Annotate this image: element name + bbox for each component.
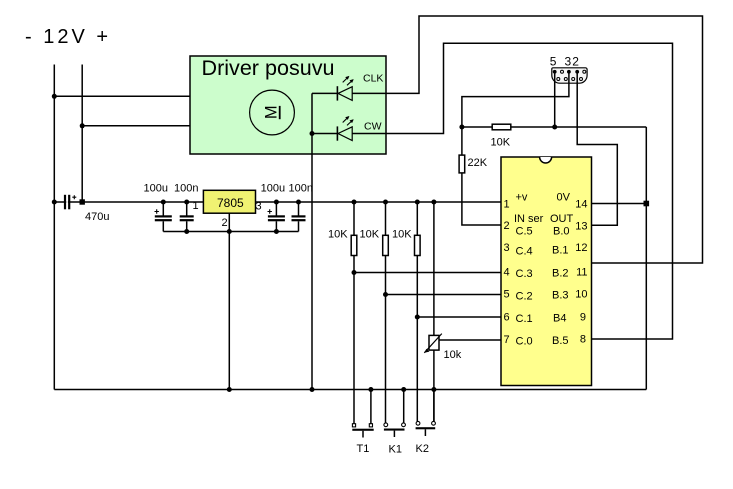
svg-text:B.3: B.3 [552,290,569,302]
junction [227,229,232,234]
resistor R5 22K vertical [459,127,501,225]
svg-text:1: 1 [504,199,510,211]
svg-text:12: 12 [575,242,587,254]
svg-text:10: 10 [575,289,587,301]
pin 12 label [575,242,587,254]
wire: capacitor ground bus [163,231,298,233]
junction [459,125,464,130]
label 0V [557,192,571,204]
svg-text:B.0: B.0 [553,226,570,238]
pin 4 label [504,267,510,279]
svg-text:3: 3 [504,242,510,254]
svg-text:100u: 100u [261,183,285,195]
svg-text:C.0: C.0 [516,336,533,348]
svg-text:470u: 470u [85,211,109,223]
IC U1 [501,157,592,386]
wire: R3 to IC pin6 [417,316,501,318]
svg-text:9: 9 [580,312,586,324]
label C.1 [516,313,533,325]
svg-text:B.1: B.1 [552,245,569,257]
value 100u [261,183,285,195]
junction on rail (100n left) [184,200,189,205]
svg-text:2: 2 [572,55,579,69]
svg-text:C.1: C.1 [516,313,533,325]
junction [552,125,557,130]
wire: right +12V rail vertical [81,65,83,203]
value 470u [85,211,109,223]
svg-text:10k: 10k [444,349,462,361]
wire: +12V feed to driver box [82,125,190,127]
wire: -12V feed to driver box [54,95,190,97]
junction on rail (R1 top) [352,200,357,205]
pin 14 label [575,199,587,211]
label CW [364,121,382,133]
svg-text:2: 2 [222,217,228,229]
resistor R4 10K horizontal [462,124,646,130]
value 100u [144,183,168,195]
svg-text:100n: 100n [289,183,313,195]
svg-text:100n: 100n [174,183,198,195]
svg-text:14: 14 [575,199,587,211]
svg-text:7: 7 [504,334,510,346]
wire: CLK net to IC pin11 [352,16,702,263]
svg-text:10K: 10K [328,229,348,241]
pin 2 label [504,220,510,232]
junction [184,229,189,234]
svg-text:IN ser: IN ser [514,213,544,225]
svg-text:5: 5 [550,55,557,69]
wire: LED common cathode vertical [311,93,313,389]
junction on rail (R2 top) [383,200,388,205]
wire: pot wiper to IC pin7 [439,339,501,341]
svg-text:C.2: C.2 [516,291,533,303]
pin 11 label [576,267,587,279]
wire: 7805 pin2 to ground rail [228,213,230,389]
svg-text:C.5: C.5 [516,226,533,238]
svg-text:- 12V +: - 12V + [25,26,111,48]
switch T1 [352,390,373,438]
pin 1 label [193,200,199,212]
svg-text:2: 2 [504,220,510,232]
switch K1 [384,390,406,438]
pin 10 label [575,289,587,301]
pin 3 label [256,201,262,213]
label B.2 [552,268,569,280]
LED CW [312,116,354,141]
label B4 [553,313,566,325]
label C.2 [516,291,533,303]
pin 3 label [504,242,510,254]
svg-text:M: M [263,105,281,119]
svg-text:OUT: OUT [550,213,574,225]
wire: bottom ground rail [54,389,646,391]
junction [80,123,85,128]
label B.0 [553,226,570,238]
svg-text:3: 3 [256,201,262,213]
junction [368,387,373,392]
wire: R1 to IC pin4 [354,272,501,274]
label OUT [550,213,574,225]
junction on rail (100n right) [296,200,301,205]
svg-text:K2: K2 [416,443,429,455]
node -12V label [25,26,111,48]
value 100n [289,183,313,195]
svg-text:C.3: C.3 [516,268,533,280]
driver box [190,56,386,154]
label CLK [363,73,383,85]
junction [52,200,57,205]
resistor R2 10K vertical [383,202,389,423]
pin 2 label [572,55,579,69]
motor M1 [250,90,295,135]
svg-text:10K: 10K [392,229,412,241]
value 10k [444,349,462,361]
svg-text:5: 5 [504,289,510,301]
label C.0 [516,336,533,348]
wire: CW net to IC pin8 [352,43,672,339]
capacitor C470u [64,195,76,210]
junction [274,229,279,234]
svg-text:Driver posuvu: Driver posuvu [202,57,335,80]
svg-text:B4: B4 [553,313,566,325]
svg-text:4: 4 [504,267,510,279]
value 22K [468,157,488,169]
pin 9 label [580,312,586,324]
regulator U 7805 [203,190,255,213]
svg-text:B.5: B.5 [552,335,569,347]
svg-text:K1: K1 [389,444,402,456]
pin 3 label [565,55,572,69]
value 10K [392,229,412,241]
pin 13 label [575,221,587,233]
label C.5 [516,226,533,238]
pin 2 label [222,217,228,229]
resistor R1 10K vertical [351,202,357,424]
svg-text:10K: 10K [491,137,511,149]
wire: right return vertical to ground [645,127,647,390]
label C.4 [516,246,533,258]
junction [431,387,436,392]
label K2 [416,443,429,455]
junction [415,315,420,320]
label K1 [389,444,402,456]
wire: main +12V/+5V horizontal rail [54,201,501,203]
junction [227,387,232,392]
capacitor 100u right [268,202,285,232]
capacitor 100n left [180,202,194,232]
pin 8 label [580,334,586,346]
svg-text:C.4: C.4 [516,246,533,258]
junction on rail (pot top) [431,200,436,205]
svg-text:11: 11 [576,267,587,279]
pin 1 label [504,199,510,211]
wire: DB9 pin5 to 10K line [554,72,556,127]
connector DB9 [552,68,587,83]
svg-text:10K: 10K [360,229,380,241]
svg-text:7805: 7805 [217,196,244,210]
potentiometer 10k [424,202,442,422]
label B.5 [552,335,569,347]
switch K2 [416,390,436,437]
svg-text:CW: CW [364,121,382,133]
pin 5 label [550,55,557,69]
label +v [516,192,528,204]
label B.1 [552,245,569,257]
junction [401,387,406,392]
pin 6 label [504,312,510,324]
value 100n [174,183,198,195]
junction on rail (100u left) [161,200,166,205]
svg-text:3: 3 [565,55,572,69]
resistor R3 10K vertical [415,202,421,422]
wire: R2 to IC pin5 [386,294,502,296]
junction on rail (100u right) [274,200,279,205]
gap in rail for cap plates [66,201,68,204]
svg-text:100u: 100u [144,183,168,195]
wire: DB9 pin2 to IC pin13 [577,72,617,225]
junction on rail (R3 top) [415,200,420,205]
capacitor 100n right [292,202,306,232]
svg-text:22K: 22K [468,157,488,169]
pin 5 label [504,289,510,301]
svg-text:+v: +v [516,192,528,204]
svg-text:1: 1 [193,200,199,212]
svg-text:6: 6 [504,312,510,324]
label C.3 [516,268,533,280]
junction [383,292,388,297]
svg-text:8: 8 [580,334,586,346]
label IN ser [514,213,544,225]
svg-text:B.2: B.2 [552,268,569,280]
svg-text:T1: T1 [357,443,370,455]
junction [52,94,57,99]
pin 7 label [504,334,510,346]
junction square at cap [80,199,85,204]
wire: left -12V rail vertical [53,65,55,390]
label B.3 [552,290,569,302]
svg-text:CLK: CLK [363,73,383,85]
capacitor 100u left [155,202,172,232]
junction [310,131,315,136]
value 10K [491,137,511,149]
wire: IC pin14 to return [592,203,647,205]
label T1 [357,443,370,455]
junction [352,270,357,275]
value 10K [360,229,380,241]
junction [310,387,315,392]
wire: DB9 pin3 to 22K node [462,72,569,127]
value 10K [328,229,348,241]
svg-text:13: 13 [575,221,587,233]
LED CLK [312,76,354,101]
junction square [644,201,650,207]
svg-text:0V: 0V [557,192,571,204]
